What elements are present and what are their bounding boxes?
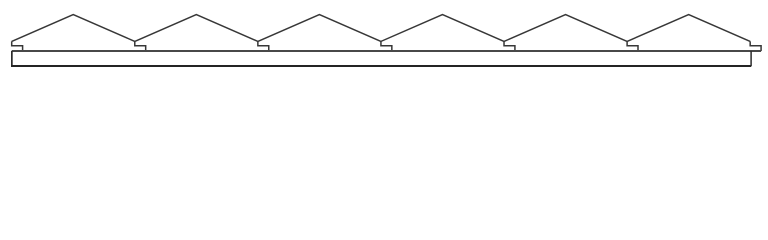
panel underside / base board top line xyxy=(12,50,761,52)
valley lock step 3 xyxy=(381,41,392,51)
valley lock step 2 xyxy=(258,41,269,51)
valley lock step 6 (right edge) xyxy=(750,41,761,51)
panel ridge profile (6 triangular panels) xyxy=(12,15,750,42)
valley lock step 4 xyxy=(504,41,515,51)
valley lock step 0 (left edge) xyxy=(12,41,23,51)
valley lock step 1 xyxy=(135,41,146,51)
valley lock step 5 xyxy=(627,41,638,51)
base board right edge xyxy=(750,51,752,66)
base board left edge xyxy=(11,51,13,66)
base board bottom edge xyxy=(11,65,751,67)
